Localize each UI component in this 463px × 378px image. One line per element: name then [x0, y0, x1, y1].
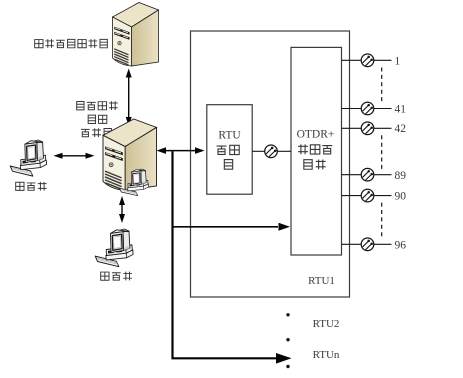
svg-text:96: 96	[395, 239, 407, 251]
svg-text:RTUn: RTUn	[313, 349, 340, 361]
wire: top server to management server (double arrow)	[128, 74, 130, 120]
vertical ellipsis dots	[286, 313, 289, 316]
svg-text:1: 1	[395, 55, 401, 67]
fiber port 42	[342, 127, 362, 129]
RTU1 outer enclosure box	[191, 31, 350, 297]
text 器 (fake glyph)	[224, 160, 232, 170]
wire: left client to management server (double arrow)	[59, 155, 89, 157]
icon: upper-level management server	[113, 3, 159, 67]
fiber port 90	[342, 195, 362, 197]
text 阵列 (fake glyphs)	[304, 160, 312, 170]
fiber port 96	[342, 243, 362, 245]
text 控制 (fake glyphs)	[217, 146, 227, 154]
svg-text:41: 41	[395, 103, 407, 115]
icon: left client pc	[10, 140, 46, 176]
wire: management server to bottom client (double arrow)	[121, 201, 123, 218]
fiber port 1	[342, 59, 362, 61]
label 客户端 (bottom client, fake glyphs)	[101, 272, 109, 280]
svg-text:OTDR+: OTDR+	[297, 129, 335, 141]
fiber port 41	[342, 108, 362, 110]
svg-text:RTU: RTU	[218, 129, 241, 141]
dashed continuation line 1-41	[381, 68, 383, 104]
icon: management server + database	[103, 119, 156, 190]
RTU controller box U1	[207, 105, 252, 195]
icon: small pc on management server	[119, 169, 148, 196]
label 网管服务 / 器和 / 数据库 (fake glyphs)	[77, 101, 84, 109]
wire: branch arrow into OTDR box	[173, 226, 279, 228]
wire: server to RTU controller (double arrow)	[162, 150, 199, 152]
wire: trunk bus from server junction down and to RTUn (thick arrow)	[173, 151, 277, 358]
svg-text:90: 90	[395, 191, 407, 203]
svg-text:42: 42	[395, 123, 407, 135]
icon: bottom client pc	[95, 229, 133, 267]
svg-text:89: 89	[395, 170, 407, 182]
svg-text:RTU1: RTU1	[308, 275, 335, 287]
label 上级网管服务器 (fake glyphs)	[35, 40, 43, 48]
text 光开关 (fake glyphs)	[298, 144, 308, 154]
dashed continuation line 90-96	[381, 203, 383, 239]
label 客户端 (left client, fake glyphs)	[16, 182, 24, 190]
fiber port 89	[342, 174, 362, 176]
dashed continuation line 42-89	[381, 135, 383, 169]
OTDR + optical switch array box U2	[291, 47, 342, 255]
svg-text:RTU2: RTU2	[313, 318, 340, 330]
attenuator/connector between RTU controller and OTDR	[252, 150, 265, 152]
